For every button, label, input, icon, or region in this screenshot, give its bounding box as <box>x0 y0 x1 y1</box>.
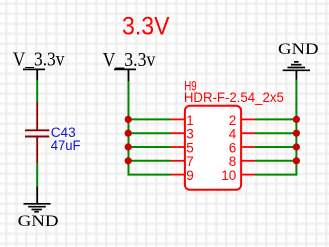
wire (green vertical, right of header) <box>295 80 297 175</box>
junction (pin6) <box>293 143 300 150</box>
wire (green, flag1 to C43) <box>36 80 38 102</box>
ground (bottom left) <box>18 187 59 230</box>
svg-text:8: 8 <box>229 154 237 169</box>
wire (flag1 stem, black) <box>36 69 38 80</box>
wire (right row 10) <box>255 174 297 176</box>
svg-text:1: 1 <box>186 113 194 128</box>
svg-text:7: 7 <box>186 154 194 169</box>
pin 4 <box>241 132 255 134</box>
svg-text:GND: GND <box>18 211 59 230</box>
svg-text:5: 5 <box>186 140 194 155</box>
wire (left row 5) <box>129 146 171 148</box>
wire (right row 6) <box>255 146 296 148</box>
svg-text:V_3.3v: V_3.3v <box>103 50 156 71</box>
wire (right row 8) <box>255 160 296 162</box>
junction (pin7) <box>125 157 132 164</box>
svg-text:6: 6 <box>229 140 237 155</box>
net flag V_3.3v (middle) <box>103 50 156 71</box>
wire (flag2 stem, black) <box>128 69 130 81</box>
pin 6 <box>241 146 255 148</box>
svg-text:10: 10 <box>221 168 236 183</box>
svg-text:2: 2 <box>229 113 237 128</box>
net flag V_3.3v (left) <box>13 50 65 71</box>
wire (left row 3) <box>129 132 171 134</box>
wire (left row 7) <box>129 160 171 162</box>
wire (right row 2) <box>255 118 296 120</box>
pin 7 <box>171 160 185 162</box>
pin 5 <box>171 146 185 148</box>
junction (pin3) <box>125 130 132 137</box>
svg-text:GND: GND <box>278 39 319 58</box>
svg-text:3.3V: 3.3V <box>122 13 170 41</box>
pin 10 <box>241 174 255 176</box>
pin 9 <box>171 174 185 176</box>
junction (pin2) <box>293 116 300 123</box>
svg-text:V_3.3v: V_3.3v <box>13 50 65 71</box>
svg-text:HDR-F-2.54_2x5: HDR-F-2.54_2x5 <box>184 90 284 105</box>
svg-text:9: 9 <box>186 168 194 183</box>
wire (green vertical bus, left of header) <box>128 81 130 174</box>
pin 1 <box>171 118 185 120</box>
svg-text:3: 3 <box>186 127 194 142</box>
wire (left row 1) <box>129 118 171 120</box>
svg-text:47uF: 47uF <box>51 138 81 154</box>
junction (pin8) <box>293 157 300 164</box>
pin 3 <box>171 132 185 134</box>
ground (top right, flipped) <box>278 39 319 79</box>
pin 2 <box>241 118 255 120</box>
header H9 HDR-F-2.54_2x5 <box>171 79 285 190</box>
wire (left row 9) <box>128 174 171 176</box>
junction (pin5) <box>125 143 132 150</box>
svg-text:4: 4 <box>229 127 237 142</box>
wire (green, C43 to GND) <box>36 163 38 187</box>
junction (pin4) <box>293 130 300 137</box>
capacitor C43 <box>25 102 49 163</box>
wire (right row 4) <box>255 132 296 134</box>
junction (pin1) <box>125 116 132 123</box>
pin 8 <box>241 160 255 162</box>
